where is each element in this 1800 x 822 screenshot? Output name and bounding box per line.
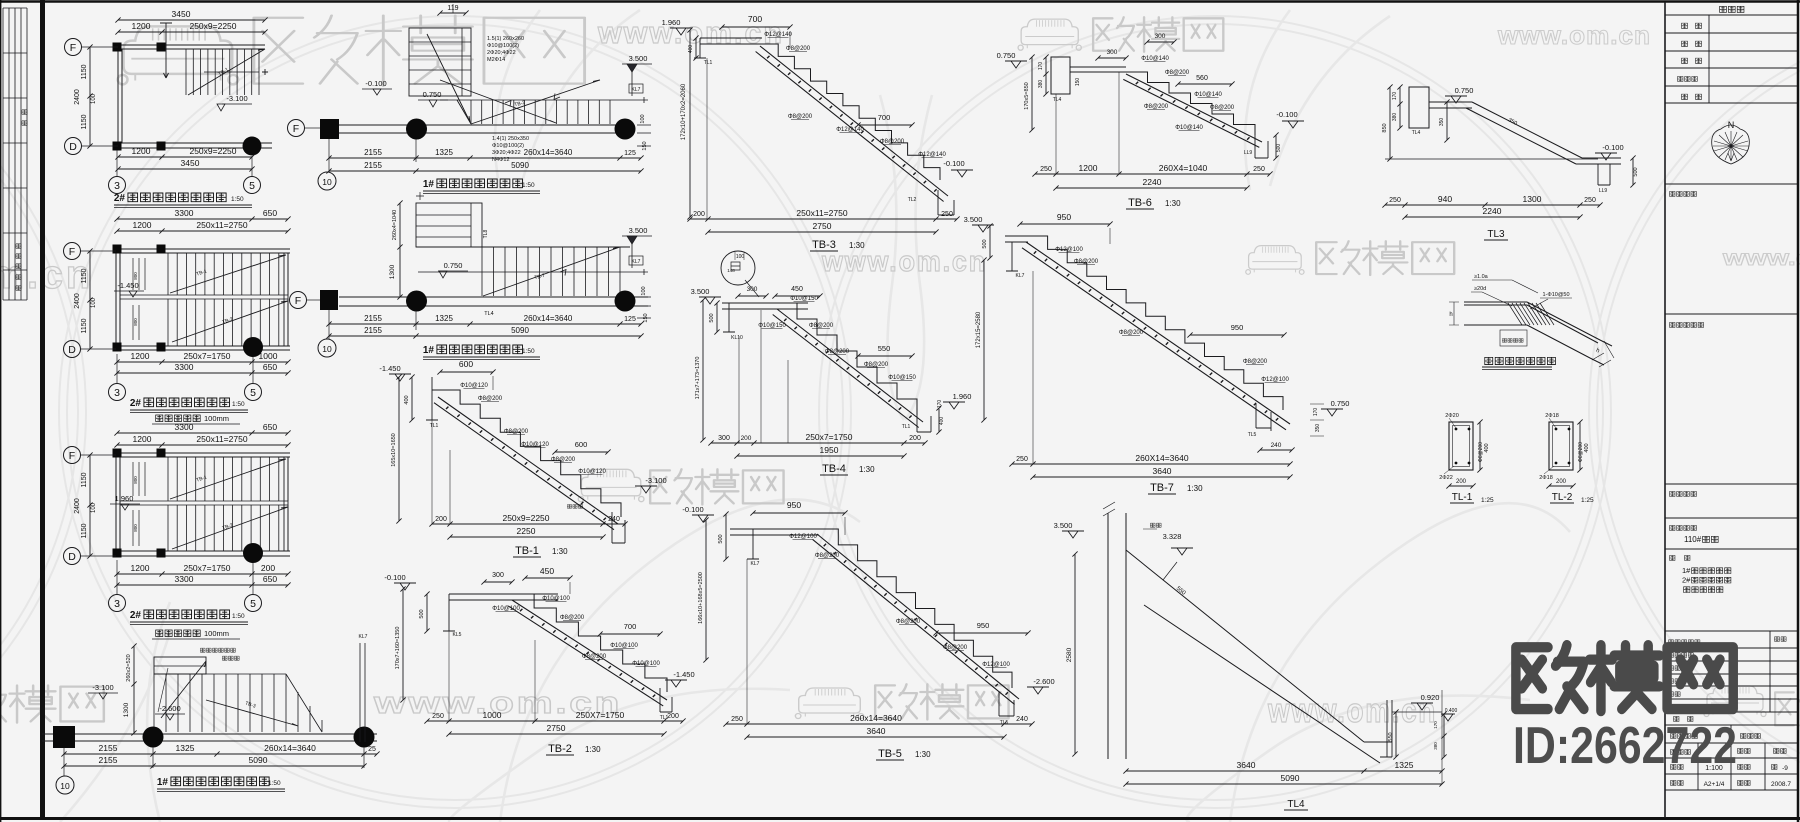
svg-text:TL3: TL3 [1487, 229, 1505, 240]
svg-text:www.o: www.o [1722, 247, 1800, 270]
svg-text:1:25: 1:25 [1581, 497, 1594, 504]
svg-text:0.750: 0.750 [997, 51, 1016, 60]
plan B stair treads [168, 253, 288, 295]
plan F left dimensions [397, 200, 402, 299]
svg-text:171x7+173=1370: 171x7+173=1370 [695, 357, 701, 400]
plan F grid stub [328, 310, 330, 339]
svg-text:1200: 1200 [132, 21, 151, 31]
svg-text:800: 800 [133, 318, 138, 326]
svg-text:166x10+168x5=2500: 166x10+168x5=2500 [698, 572, 704, 624]
svg-text:10: 10 [322, 177, 332, 187]
svg-text:1000: 1000 [483, 710, 502, 720]
plan B flight diagonals [170, 255, 288, 342]
svg-text:260X14=3640: 260X14=3640 [1135, 453, 1188, 463]
fold title [1485, 357, 1556, 364]
svg-text:1#: 1# [157, 777, 169, 788]
TL4 right support [1364, 700, 1392, 757]
svg-text:Φ10@140: Φ10@140 [1194, 92, 1222, 98]
TB-6 parapet box [1051, 57, 1070, 94]
svg-text:170x7+160=1350: 170x7+160=1350 [395, 627, 401, 670]
svg-text:F: F [69, 450, 75, 462]
TB-3 slab [756, 46, 948, 202]
left margin table [3, 8, 27, 300]
svg-text:650: 650 [263, 362, 277, 372]
plan D stair treads [154, 674, 286, 732]
TB-5 slab [813, 534, 1019, 704]
svg-text:300: 300 [1155, 33, 1166, 40]
svg-text:0.920: 0.920 [1421, 693, 1440, 702]
svg-text:148: 148 [727, 268, 735, 273]
svg-text:Φ8@200: Φ8@200 [1243, 359, 1268, 365]
section TB-2 [384, 566, 694, 755]
svg-text:-9: -9 [1782, 765, 1788, 772]
plan A walls and beams [118, 45, 122, 148]
svg-text:150: 150 [1075, 78, 1081, 87]
title block row lines [1665, 184, 1797, 549]
svg-text:1.960: 1.960 [953, 392, 972, 401]
plan C landing rebar marks [133, 462, 145, 546]
TB-2 tail foot [660, 688, 672, 712]
TL3 landing slab [1429, 102, 1472, 108]
svg-text:100: 100 [640, 114, 646, 123]
svg-text:KL7: KL7 [1016, 273, 1025, 279]
svg-text:1300: 1300 [123, 702, 130, 717]
section TB-3 [662, 14, 973, 251]
svg-text:200: 200 [435, 516, 447, 523]
svg-text:1:50: 1:50 [522, 348, 535, 355]
title block frame [1665, 2, 1797, 818]
plan A grid disc [243, 137, 262, 156]
svg-text:500: 500 [718, 534, 724, 543]
plan D note small text [200, 648, 235, 652]
TB-7 tail foot [1256, 404, 1271, 431]
TB-1 landing hook [426, 377, 440, 420]
svg-text:300: 300 [492, 572, 504, 579]
TB-2 left dimension [400, 586, 405, 702]
svg-text:1150: 1150 [81, 472, 88, 487]
svg-text:Φ8@200: Φ8@200 [560, 615, 585, 621]
plan A left dimensions [87, 44, 92, 148]
svg-text:Φ10@150: Φ10@150 [758, 323, 786, 329]
svg-text:1200: 1200 [1079, 163, 1098, 173]
fold slab lines [1464, 302, 1612, 365]
plan C walls and beams [116, 453, 120, 556]
svg-text:Φ10@100(2): Φ10@100(2) [492, 143, 524, 149]
plan F main beam [339, 297, 648, 306]
svg-text:3.500: 3.500 [1054, 521, 1073, 530]
TL4 sloping slab band [1126, 550, 1380, 763]
svg-text:Φ10@120: Φ10@120 [521, 442, 549, 448]
svg-text:100mm: 100mm [204, 629, 229, 638]
svg-text:250x9=2250: 250x9=2250 [502, 513, 549, 523]
plan F KL7 label [629, 256, 643, 265]
svg-text:Φ8@200: Φ8@200 [786, 46, 811, 52]
watermark logo text 1 [254, 16, 585, 86]
svg-text:Φ12@100: Φ12@100 [1055, 247, 1083, 253]
svg-text:TL4: TL4 [1412, 130, 1421, 136]
svg-text:1:50: 1:50 [231, 196, 244, 203]
TB-4 extension lines [739, 310, 788, 443]
svg-text:-2.600: -2.600 [159, 704, 180, 713]
plan A stair treads [186, 49, 259, 95]
plan E landing box [409, 28, 471, 96]
svg-text:400: 400 [939, 417, 945, 426]
svg-text:ID:2662722: ID:2662722 [1513, 717, 1737, 775]
TB-7 steps [1028, 236, 1283, 410]
watermark sofa 1 [118, 26, 238, 84]
svg-text:380: 380 [1392, 113, 1398, 122]
plan D main beam [42, 734, 377, 741]
plan B grid bubbles 3 5 [116, 354, 118, 383]
svg-text:Φ10@150: Φ10@150 [888, 375, 916, 381]
svg-text:170: 170 [937, 400, 943, 409]
svg-text:TL5: TL5 [1000, 720, 1009, 726]
svg-text:0.750: 0.750 [444, 261, 463, 270]
title block staff table [1665, 631, 1797, 790]
TB-6 landing slab [1070, 67, 1126, 72]
svg-text:250x11=2750: 250x11=2750 [196, 434, 247, 444]
svg-text:2250: 2250 [517, 526, 536, 536]
svg-text:200: 200 [693, 211, 705, 218]
svg-text:5090: 5090 [511, 161, 529, 170]
svg-text:Φ10@150: Φ10@150 [790, 296, 818, 302]
svg-text:1325: 1325 [435, 314, 453, 323]
TB-5 landing slab [730, 529, 819, 535]
svg-text:125: 125 [624, 150, 636, 157]
detail TL-2 beam section [1539, 413, 1594, 504]
svg-text:≥1.0a: ≥1.0a [1474, 274, 1489, 280]
plan E grid discs [406, 119, 427, 140]
svg-text:3300: 3300 [175, 208, 194, 218]
svg-text:1300: 1300 [1523, 194, 1542, 204]
svg-text:3450: 3450 [181, 158, 200, 168]
section TB-5 [682, 500, 1054, 760]
svg-text:Φ10@140: Φ10@140 [1175, 125, 1203, 131]
TB-3 landing slab [700, 38, 762, 44]
TB-6 extension lines [1056, 72, 1119, 174]
svg-text:250: 250 [731, 716, 743, 723]
svg-text:-1.450: -1.450 [673, 670, 694, 679]
svg-text:1:50: 1:50 [232, 613, 245, 620]
svg-text:100: 100 [736, 254, 745, 260]
svg-text:110#: 110# [1684, 535, 1702, 544]
svg-text:D: D [69, 141, 77, 153]
TB-2 landing slab [449, 594, 558, 600]
svg-text:200: 200 [1556, 479, 1567, 485]
TB-2 slab [508, 600, 667, 706]
TB-2 steps [512, 594, 667, 692]
svg-text:850: 850 [1382, 123, 1388, 132]
plan F grid bubble F [290, 292, 307, 309]
svg-text:950: 950 [1231, 323, 1244, 332]
svg-text:-0.100: -0.100 [943, 159, 964, 168]
svg-text:2240: 2240 [1483, 206, 1502, 216]
svg-text:1000: 1000 [259, 351, 278, 361]
svg-text:2400: 2400 [74, 293, 81, 309]
svg-text:170: 170 [1433, 721, 1438, 729]
svg-text:400: 400 [1484, 443, 1490, 452]
svg-text:250x7=1750: 250x7=1750 [805, 432, 852, 442]
svg-text:1:30: 1:30 [915, 750, 931, 759]
svg-text:2155: 2155 [364, 161, 382, 170]
svg-text:2750: 2750 [813, 221, 832, 231]
svg-text:Φ8@200: Φ8@200 [1119, 330, 1144, 336]
svg-text:250x11=2750: 250x11=2750 [196, 220, 247, 230]
TL3 parapet box [1409, 87, 1429, 128]
TB-1 slab [434, 397, 618, 530]
svg-text:2008.7: 2008.7 [1771, 781, 1791, 788]
svg-text:TB-2: TB-2 [548, 743, 572, 755]
svg-text:Φ8@200: Φ8@200 [815, 553, 840, 559]
svg-text:Φ8@200: Φ8@200 [788, 114, 813, 120]
svg-text:2155: 2155 [99, 743, 118, 753]
TB-4 pipe sleeve detail circle [721, 251, 755, 285]
svg-text:260x14=3640: 260x14=3640 [524, 314, 573, 323]
TB-1 steps [440, 390, 621, 517]
TB-7 extension lines [1033, 228, 1110, 464]
svg-text:TB-5: TB-5 [878, 748, 902, 760]
svg-text:Φ8@200: Φ8@200 [1144, 104, 1169, 110]
TB-1 extension lines [432, 376, 493, 524]
watermark sofa title block [1704, 686, 1766, 717]
svg-text:350: 350 [1315, 424, 1321, 433]
svg-text:800: 800 [133, 476, 138, 484]
TB-5 extension lines [747, 517, 845, 724]
svg-text:5: 5 [250, 598, 256, 610]
plan E grid bubble F [288, 120, 305, 137]
svg-text:550: 550 [878, 344, 891, 353]
TB-5 steps [819, 529, 1012, 688]
svg-text:2155: 2155 [364, 148, 382, 157]
svg-text:3.328: 3.328 [1163, 532, 1182, 541]
svg-text:260x14=3640: 260x14=3640 [264, 743, 316, 753]
svg-text:1.960: 1.960 [662, 18, 681, 27]
svg-text:250: 250 [1016, 456, 1028, 463]
svg-text:240: 240 [608, 516, 620, 523]
svg-text:KL10: KL10 [731, 335, 743, 341]
svg-text:Φ8@200: Φ8@200 [880, 139, 905, 145]
svg-text:5090: 5090 [511, 326, 529, 335]
svg-text:10: 10 [322, 344, 332, 354]
svg-text:TL2: TL2 [908, 197, 917, 203]
svg-text:950: 950 [977, 621, 990, 630]
svg-text:Φ8@200: Φ8@200 [582, 654, 607, 660]
svg-text:650: 650 [263, 208, 277, 218]
TB-1 left dimension [396, 374, 401, 523]
svg-text:www.om.cn: www.om.cn [1267, 692, 1437, 730]
svg-text:1#: 1# [423, 345, 435, 356]
plan B columns [113, 245, 166, 352]
plan A grid bubbles 3 5 [116, 150, 118, 176]
plan B grid disc [243, 337, 263, 357]
svg-text:2155: 2155 [364, 326, 382, 335]
svg-text:3300: 3300 [175, 574, 194, 584]
svg-text:Φ12@100: Φ12@100 [982, 662, 1010, 668]
svg-text:1300: 1300 [389, 264, 396, 279]
svg-text:0.750: 0.750 [423, 90, 442, 99]
title block item name [1670, 525, 1697, 530]
svg-text:2Φ22: 2Φ22 [1439, 475, 1453, 481]
svg-text:-3.100: -3.100 [645, 476, 666, 485]
svg-text:250x11=2750: 250x11=2750 [796, 208, 847, 218]
svg-text:Φ12@140: Φ12@140 [836, 127, 864, 133]
plan B note platform thickness [156, 415, 201, 421]
fold leaders and notes [1471, 280, 1538, 306]
TB-7 left dimension [981, 257, 986, 422]
section TB-4 [691, 251, 972, 475]
plan E KL7 label [629, 84, 643, 93]
TB-1 tail foot [612, 512, 625, 543]
watermark sofa 4 [1246, 246, 1304, 275]
svg-text:3640: 3640 [1237, 760, 1256, 770]
svg-text:0.750: 0.750 [1331, 399, 1350, 408]
svg-text:500: 500 [1633, 167, 1639, 176]
svg-text:KL7: KL7 [632, 87, 641, 93]
svg-text:1#: 1# [1682, 566, 1691, 575]
svg-text:1325: 1325 [1395, 760, 1414, 770]
plan F grid discs [406, 291, 427, 312]
svg-text:2#: 2# [130, 398, 142, 409]
watermark logo text 2 [1093, 17, 1223, 52]
svg-text:2400: 2400 [74, 498, 81, 514]
svg-text:600: 600 [459, 359, 473, 369]
fold rebar hatch [1508, 303, 1554, 325]
svg-text:-1.450: -1.450 [117, 281, 138, 290]
svg-text:F: F [69, 246, 75, 258]
svg-text:3: 3 [114, 387, 120, 399]
svg-text:TL4: TL4 [1053, 97, 1062, 103]
svg-text:260X4=1040: 260X4=1040 [1159, 163, 1208, 173]
detail TL-1 beam section [1439, 413, 1494, 504]
svg-text:1200: 1200 [132, 146, 151, 156]
svg-text:1:30: 1:30 [552, 547, 568, 556]
svg-text:-3.100: -3.100 [226, 94, 247, 103]
svg-text:2Φ18: 2Φ18 [1539, 475, 1553, 481]
svg-text:-3.100: -3.100 [92, 683, 113, 692]
detail stair fold joint [1449, 274, 1614, 370]
svg-text:200: 200 [909, 435, 921, 442]
svg-text:1.960: 1.960 [115, 494, 134, 503]
svg-text:100: 100 [91, 93, 97, 104]
svg-text:650: 650 [263, 422, 277, 432]
svg-text:Φ12@100: Φ12@100 [1261, 377, 1289, 383]
svg-text:-0.100: -0.100 [1602, 143, 1623, 152]
svg-text:3640: 3640 [867, 726, 886, 736]
svg-text:500: 500 [709, 313, 715, 322]
plan B left dimensions [87, 248, 92, 351]
TL3 sloping slab band [1466, 102, 1621, 164]
svg-text:1:30: 1:30 [859, 465, 875, 474]
svg-text:300: 300 [1107, 49, 1118, 56]
svg-text:500: 500 [1276, 144, 1282, 153]
svg-text:1:25: 1:25 [1481, 497, 1494, 504]
svg-text:2Φ20;4Φ22: 2Φ20;4Φ22 [487, 50, 516, 56]
svg-text:TL1: TL1 [430, 423, 439, 429]
svg-text:500: 500 [419, 609, 425, 618]
svg-text:≥20d: ≥20d [1474, 286, 1486, 292]
svg-text:250: 250 [1253, 166, 1265, 173]
TB-4 tail foot [917, 408, 931, 432]
watermark sofa 2 [1018, 19, 1081, 50]
big site logo text [1516, 645, 1733, 711]
plan F left column [320, 290, 338, 310]
TL3 ground line [1385, 158, 1598, 160]
svg-text:3.500: 3.500 [691, 287, 710, 296]
svg-text:TL-1: TL-1 [1452, 492, 1473, 503]
svg-text:260x4=1040: 260x4=1040 [392, 210, 398, 240]
svg-text:200: 200 [261, 563, 275, 573]
svg-text:www.om.cn: www.om.cn [1497, 20, 1651, 50]
svg-text:500: 500 [982, 239, 988, 248]
TB-5 tail foot [999, 692, 1014, 716]
svg-text:260x2=520: 260x2=520 [126, 654, 132, 681]
svg-text:www.om.cn: www.om.cn [0, 253, 93, 297]
plan A: 2# stair basement plan [65, 9, 273, 208]
svg-text:Φ8@200: Φ8@200 [1210, 105, 1235, 111]
svg-text:0.400: 0.400 [1445, 708, 1458, 714]
svg-text:-0.100: -0.100 [365, 79, 386, 88]
svg-text:1-Φ10@50: 1-Φ10@50 [1542, 292, 1569, 298]
svg-text:Φ10@120: Φ10@120 [460, 383, 488, 389]
plan F grid bubble 10 [318, 339, 336, 357]
svg-text:172x15=2580: 172x15=2580 [976, 311, 982, 348]
plan F landing box [416, 203, 482, 247]
svg-text:2Φ20: 2Φ20 [1445, 413, 1459, 419]
svg-text:950: 950 [787, 500, 801, 510]
svg-text:10: 10 [60, 781, 70, 791]
section TB-1 [379, 359, 666, 557]
svg-text:1:50: 1:50 [232, 401, 245, 408]
watermark logo text left cut [0, 685, 104, 722]
plan D column [53, 726, 75, 748]
plan D grid discs [143, 727, 164, 748]
svg-text:400: 400 [688, 45, 694, 54]
svg-text:450: 450 [791, 286, 803, 293]
plan D right wall line [360, 643, 365, 742]
svg-text:1150: 1150 [81, 64, 88, 79]
svg-text:600: 600 [575, 440, 588, 449]
plan D left dimensions [131, 643, 136, 735]
TL4 left dimension 2580 [1072, 551, 1077, 756]
TL3 foot [1598, 164, 1610, 185]
svg-text:Φ12@100: Φ12@100 [789, 534, 817, 540]
svg-text:200: 200 [1456, 479, 1467, 485]
plan F centerline [418, 269, 648, 275]
watermark logo text 5 [875, 684, 1008, 719]
svg-text:-0.100: -0.100 [682, 505, 703, 514]
svg-text:Φ8@200: Φ8@200 [825, 349, 850, 355]
svg-text:350: 350 [1439, 118, 1445, 127]
plan C note platform thickness [156, 630, 201, 636]
TB-2 extension lines [449, 582, 570, 721]
plan E main beam [339, 125, 632, 133]
TB-3 left dimension [687, 27, 692, 219]
plan C stair treads [168, 457, 288, 501]
svg-text:2#: 2# [130, 610, 142, 621]
TB-7 slab [1022, 242, 1290, 430]
svg-text:2Φ18: 2Φ18 [1545, 413, 1559, 419]
plan E stair treads [471, 100, 610, 124]
svg-text:250: 250 [1584, 197, 1596, 204]
svg-text:F: F [70, 42, 76, 54]
plan C grid bubbles F D [64, 447, 81, 464]
plan A columns [113, 43, 166, 151]
TL4 dimension 550 [1393, 709, 1398, 759]
svg-text:Φ10@100: Φ10@100 [610, 643, 638, 649]
svg-text:250: 250 [1040, 166, 1052, 173]
svg-text:TL1: TL1 [902, 424, 911, 430]
svg-text:LL9: LL9 [1244, 150, 1253, 156]
